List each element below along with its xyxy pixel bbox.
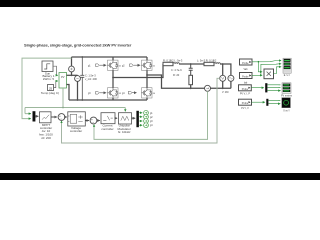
inductor L1 [163,62,179,65]
wire Vab to scope [252,61,281,62]
IGBT Q2 top-right [142,60,153,70]
goto tag g1 [139,112,142,114]
mux PV measurements [33,111,36,121]
goto tag g4 [139,124,142,126]
svg-text:Single-phase, single-stage, gr: Single-phase, single-stage, grid-connect… [24,42,132,47]
IGBT Q4 bottom-right [142,88,153,98]
svg-text:D3: D3 [119,93,121,95]
node cap bottom [81,99,83,101]
green measurement line V_pv to mux and modulator [25,88,125,114]
probe block PV IV [239,99,252,105]
svg-text:fs: 10kHz: fs: 10kHz [118,130,131,134]
wire cctrl to modulator [115,117,117,119]
node cap top [81,56,83,58]
svg-text:Probe: Probe [242,62,249,65]
svg-text:R: 20: R: 20 [173,73,180,77]
bottom letterbox bar [0,173,320,180]
svg-text:Probe: Probe [242,88,249,91]
node V meas rail [222,87,224,89]
svg-text:C: 4.7e-6: C: 4.7e-6 [171,68,182,72]
svg-text:controller: controller [101,127,113,131]
DC- rail [69,99,147,101]
wire probe IV to mux [252,101,265,103]
svg-text:PV V, I, P: PV V, I, P [240,92,251,95]
wire leg2 top [146,57,148,60]
svg-text:PV meters: PV meters [281,95,293,98]
constant block Temp 25 [48,85,54,91]
node PV+ junction [71,74,73,76]
svg-text:V: 230: V: 230 [222,92,229,94]
svg-text:PV I, V: PV I, V [241,107,249,110]
green feedback grid current to sum2 [94,91,208,139]
wire Sun to PV input Ir [53,66,58,75]
svg-text:D2: D2 [153,66,155,68]
DC+ rail [72,56,148,58]
product block [264,69,274,79]
XY scope display [282,98,291,108]
wire leg1 top [112,57,114,60]
mux PV display [265,83,267,92]
svg-text:controller: controller [70,129,82,133]
svg-text:Probe: Probe [242,102,249,105]
voltage controller block [68,112,86,126]
AC voltage source circle [228,75,234,81]
wire sum1 to voltage controller [65,116,67,118]
wire PV+ to sensor node [67,74,78,76]
wire mux to MPPT [35,115,38,117]
node R rail [190,87,192,89]
wire leg2 middle and bottom [146,70,148,100]
probe block Vab [240,59,253,65]
wire bridge output B to grid return [147,75,231,88]
voltage measurement circle grid [220,75,226,81]
wire leg1 middle and bottom [112,70,114,100]
wire L2 to grid [220,64,231,75]
current sensor circle I_pv [69,66,75,72]
wire Vab to product [258,62,262,72]
wire product to scope [274,67,282,74]
svg-text:E. U. I: E. U. I [284,75,291,77]
wire MPPT to sum1 [51,116,57,118]
inductor L2 [204,62,220,65]
resistor R damping [189,75,193,84]
wire sum2 to current controller [97,120,100,122]
svg-text:v_init: 400: v_init: 400 [85,77,97,81]
current controller block [101,113,115,124]
wire AC source stub [230,81,232,88]
probe block PV VIP [239,85,252,91]
wire modulator top input [124,108,126,112]
wires mux to XY scope [268,100,280,103]
demux gate signals [136,111,139,127]
MPPT controller block [40,112,52,123]
wire V meas stubs [222,64,224,88]
top letterbox bar [0,0,320,7]
wire L1 to junction [179,63,204,65]
svg-text:kW/m: 5: kW/m: 5 [43,77,54,81]
current sensor circle grid [205,85,211,91]
wire modulator to demux [132,117,136,119]
svg-text:Probe: Probe [242,76,249,79]
green measurement line I_pv to mux [22,58,72,119]
goto tag g3 [139,120,142,122]
scope display AC [283,58,291,73]
node leg1 midpoint [112,77,114,79]
node leg2 midpoint [146,74,148,76]
wires mux to PV display [267,85,280,91]
wire sensor chain vertical [72,57,78,100]
capacitor C DC link [80,57,84,100]
node Iab branch [260,75,262,77]
wire vctrl to sum2 [85,120,89,122]
node LC junction [190,63,192,65]
voltage sensor circle V_pv [75,76,81,82]
wire Temp to PV input T [54,81,58,88]
node Vpv bottom rail [77,99,79,101]
capacitor C filter [189,64,193,75]
sum junction 2 [90,117,97,124]
svg-text:D1: D1 [119,66,121,68]
mux XY [266,99,268,106]
wire PV- to DC- rail [67,85,70,101]
node grid top [222,63,224,65]
gray feedback grid voltage to sum1 [62,78,220,143]
svg-text:Vab: Vab [243,68,248,71]
sum junction 1 [58,114,65,121]
svg-text:Temp (deg C): Temp (deg C) [41,91,59,95]
source block Sun (irradiance step) [42,61,53,72]
wire Iab to scope [261,64,281,76]
svg-text:v0: 200: v0: 200 [41,136,51,140]
PWM modulator block [119,113,132,124]
svg-text:X vs Y: X vs Y [283,111,290,113]
goto tag g2 [139,116,142,118]
display PV meters [282,83,291,94]
IGBT Q3 bottom-left [108,88,119,98]
node Vpv junction [62,107,64,109]
PV array block [59,73,67,89]
probe block Iab [240,73,253,79]
node Vab branch [258,61,260,63]
svg-text:C: 1.5e-3: C: 1.5e-3 [85,73,96,77]
wire probe PV to mux [251,87,263,89]
wire bridge output A to filter [113,64,163,78]
svg-text:D4: D4 [153,93,155,95]
wire R to rail [190,85,192,89]
wire Iab to product [252,74,262,76]
IGBT Q1 top-left [108,60,119,70]
svg-text:PV: PV [61,75,65,79]
